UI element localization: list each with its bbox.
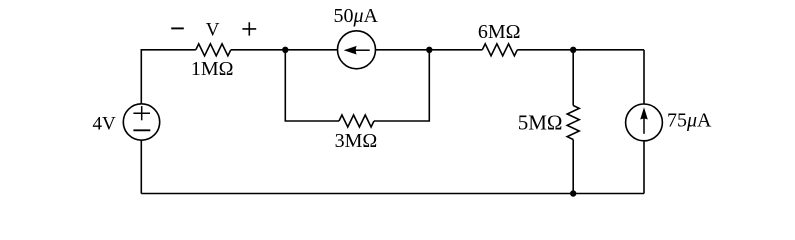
I2 arrow (points up) — [640, 107, 648, 134]
wire 5MΩ branch lower to node E — [572, 140, 574, 194]
wire R1 to I1 (through node B) — [231, 49, 338, 51]
svg-text:75μA: 75μA — [667, 110, 712, 132]
wire left vertical lower (V1 to bottom) — [140, 141, 142, 194]
svg-text:1MΩ: 1MΩ — [191, 58, 234, 80]
voltage source V1 circle — [123, 104, 159, 140]
wire R3 to top-right corner (through node D) — [517, 49, 644, 51]
svg-text:5MΩ: 5MΩ — [518, 110, 563, 134]
current source I1 circle — [338, 31, 376, 69]
wire 3MΩ loop right rise to node C — [374, 50, 429, 121]
junction node B dot — [282, 47, 288, 53]
label V polarity plus sign — [242, 22, 256, 35]
resistor R3 6MΩ zigzag — [482, 44, 517, 56]
wire 5MΩ branch upper from node D — [572, 50, 574, 106]
svg-text:3MΩ: 3MΩ — [335, 130, 378, 152]
wire right vertical lower (I2 to bottom) — [643, 141, 645, 193]
wire 3MΩ loop left drop from node B — [285, 50, 339, 121]
junction node D dot — [570, 47, 576, 53]
wire bottom rail — [141, 193, 644, 195]
junction node E dot (bottom) — [570, 190, 576, 196]
current source I2 circle — [626, 104, 663, 141]
svg-text:V: V — [206, 20, 220, 41]
svg-text:4V: 4V — [92, 113, 116, 134]
wire top-left segment (node A to R1) — [141, 50, 196, 104]
V1 minus sign — [133, 129, 150, 131]
label V polarity minus sign — [171, 27, 184, 29]
I1 arrow (points left) — [344, 46, 370, 55]
junction node C dot — [426, 47, 432, 53]
resistor R1 1MΩ zigzag — [196, 44, 231, 56]
svg-text:50μA: 50μA — [333, 5, 378, 27]
resistor R4 5MΩ vertical zigzag — [567, 106, 579, 140]
wire I1 to R3 (through node C) — [375, 49, 482, 51]
wire right vertical upper (to I2) — [643, 50, 645, 104]
V1 plus sign — [133, 106, 150, 120]
resistor R2 3MΩ zigzag — [339, 115, 374, 127]
svg-text:6MΩ: 6MΩ — [478, 21, 521, 43]
